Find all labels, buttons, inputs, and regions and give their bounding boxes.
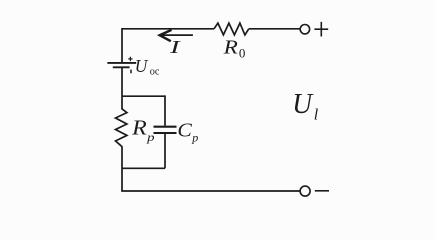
svg-text:I: I bbox=[168, 37, 181, 57]
wire main vertical lower (Rp to bottom rail) bbox=[121, 146, 123, 191]
wire top rail left segment bbox=[122, 28, 214, 30]
battery polarity plus mark bbox=[128, 57, 132, 61]
wire capacitor branch lower bbox=[164, 134, 166, 168]
battery cell Uoc: long plate bbox=[107, 62, 136, 64]
wire loop top bbox=[122, 95, 165, 97]
wire bottom rail bbox=[121, 190, 299, 192]
wire main vertical upper (top rail to battery) bbox=[121, 28, 123, 63]
minus sign output bbox=[315, 190, 329, 192]
wire top rail right segment bbox=[249, 28, 300, 30]
svg-text:U: U bbox=[135, 56, 149, 76]
svg-text:R: R bbox=[222, 37, 238, 59]
plus sign output bbox=[314, 22, 328, 37]
battery cell Uoc: short plate bbox=[113, 66, 130, 68]
svg-text:U: U bbox=[292, 88, 314, 120]
wire capacitor branch upper bbox=[164, 95, 166, 125]
resistor R0 bbox=[214, 23, 249, 35]
svg-text:C: C bbox=[177, 120, 192, 142]
svg-text:R: R bbox=[131, 116, 147, 140]
capacitor Cp: bottom plate bbox=[154, 132, 177, 134]
terminal circle + (positive output) bbox=[300, 25, 309, 34]
capacitor Cp: top plate bbox=[154, 126, 177, 128]
svg-text:0: 0 bbox=[239, 45, 246, 60]
terminal circle - (negative output) bbox=[300, 186, 310, 196]
current arrow I bbox=[160, 30, 193, 41]
battery polarity minus tick bbox=[130, 70, 132, 74]
svg-text:p: p bbox=[146, 130, 155, 144]
resistor Rp bbox=[116, 109, 127, 147]
svg-text:l: l bbox=[314, 107, 319, 124]
wire main vertical (battery to Rp) bbox=[121, 67, 123, 109]
wire loop bottom bbox=[122, 167, 165, 169]
svg-text:oc: oc bbox=[150, 67, 160, 78]
svg-text:p: p bbox=[191, 131, 198, 145]
